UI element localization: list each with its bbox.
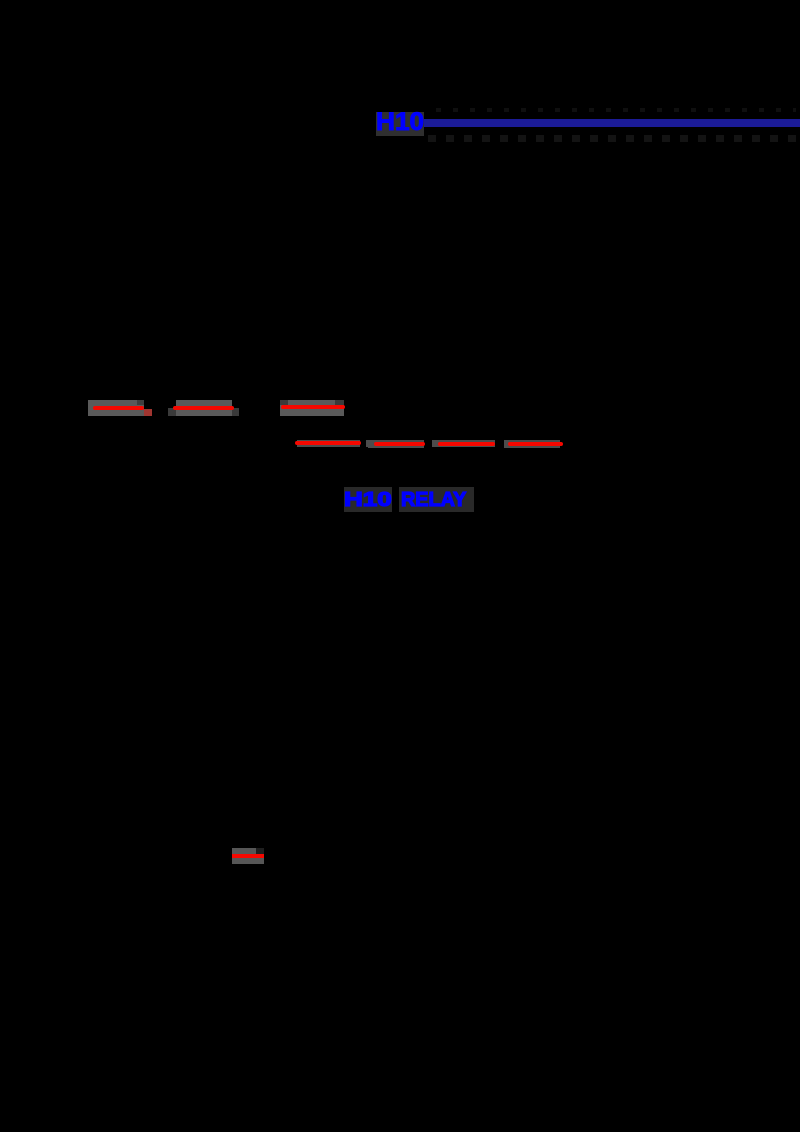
- node G (row-2 highlight band 4): [504, 440, 560, 448]
- wire (red strike mark 3, row 2): [438, 442, 495, 446]
- wire (red strike mark 1, row 1): [93, 406, 144, 410]
- wire (red strike mark, lower): [232, 854, 264, 858]
- node A (row-1 highlight box 1): [88, 400, 144, 416]
- wire (red strike mark 4, row 2): [508, 442, 563, 446]
- node E (row-2 highlight band 2): [368, 440, 424, 448]
- net label RELAY (title word 2, blue link text): [401, 493, 466, 507]
- node RELAY (title hyperlink highlight box, word 2): [399, 487, 474, 512]
- junction (dark patch top-right of box 3): [335, 400, 344, 405]
- junction (dark flank right of box 2): [232, 408, 239, 416]
- node B (row-1 highlight box 2): [176, 400, 232, 416]
- junction (dark flank left of box 2): [168, 408, 176, 416]
- junction (dark patch top-left of box 3): [280, 400, 288, 405]
- node H10 (title hyperlink highlight box, word 1): [344, 487, 392, 512]
- wire (navy horizontal leader line to sheet edge): [424, 119, 800, 127]
- pin 2 (dark glyph patch on lower box corner): [256, 848, 264, 854]
- node H10 (top hyperlink highlight box): [376, 112, 424, 136]
- wire (red strike mark 2, row 1): [173, 406, 234, 410]
- wire (red strike mark 3, row 1): [281, 405, 345, 409]
- junction (small gray tick after band 1): [366, 440, 369, 447]
- node C (row-1 highlight box 3): [280, 400, 344, 416]
- node H (lower highlight box): [232, 848, 264, 864]
- net label H10 (top, blue link text): [376, 113, 424, 131]
- wire (red strike mark 2, row 2): [374, 442, 425, 446]
- wire (red strike mark 1, row 2): [295, 441, 361, 445]
- wire segment (faint dotted leader below navy line): [428, 135, 800, 142]
- junction (dark patch top-right of box 1): [137, 400, 144, 405]
- node F (row-2 highlight band 3): [432, 440, 495, 447]
- pin 1 (dark red subscript square after mark 1): [144, 409, 152, 416]
- node D (row-2 highlight band 1): [297, 440, 360, 447]
- net label H10 (title word 1, blue link text): [344, 493, 392, 507]
- wire segment (faint dotted leader above navy line): [436, 108, 796, 112]
